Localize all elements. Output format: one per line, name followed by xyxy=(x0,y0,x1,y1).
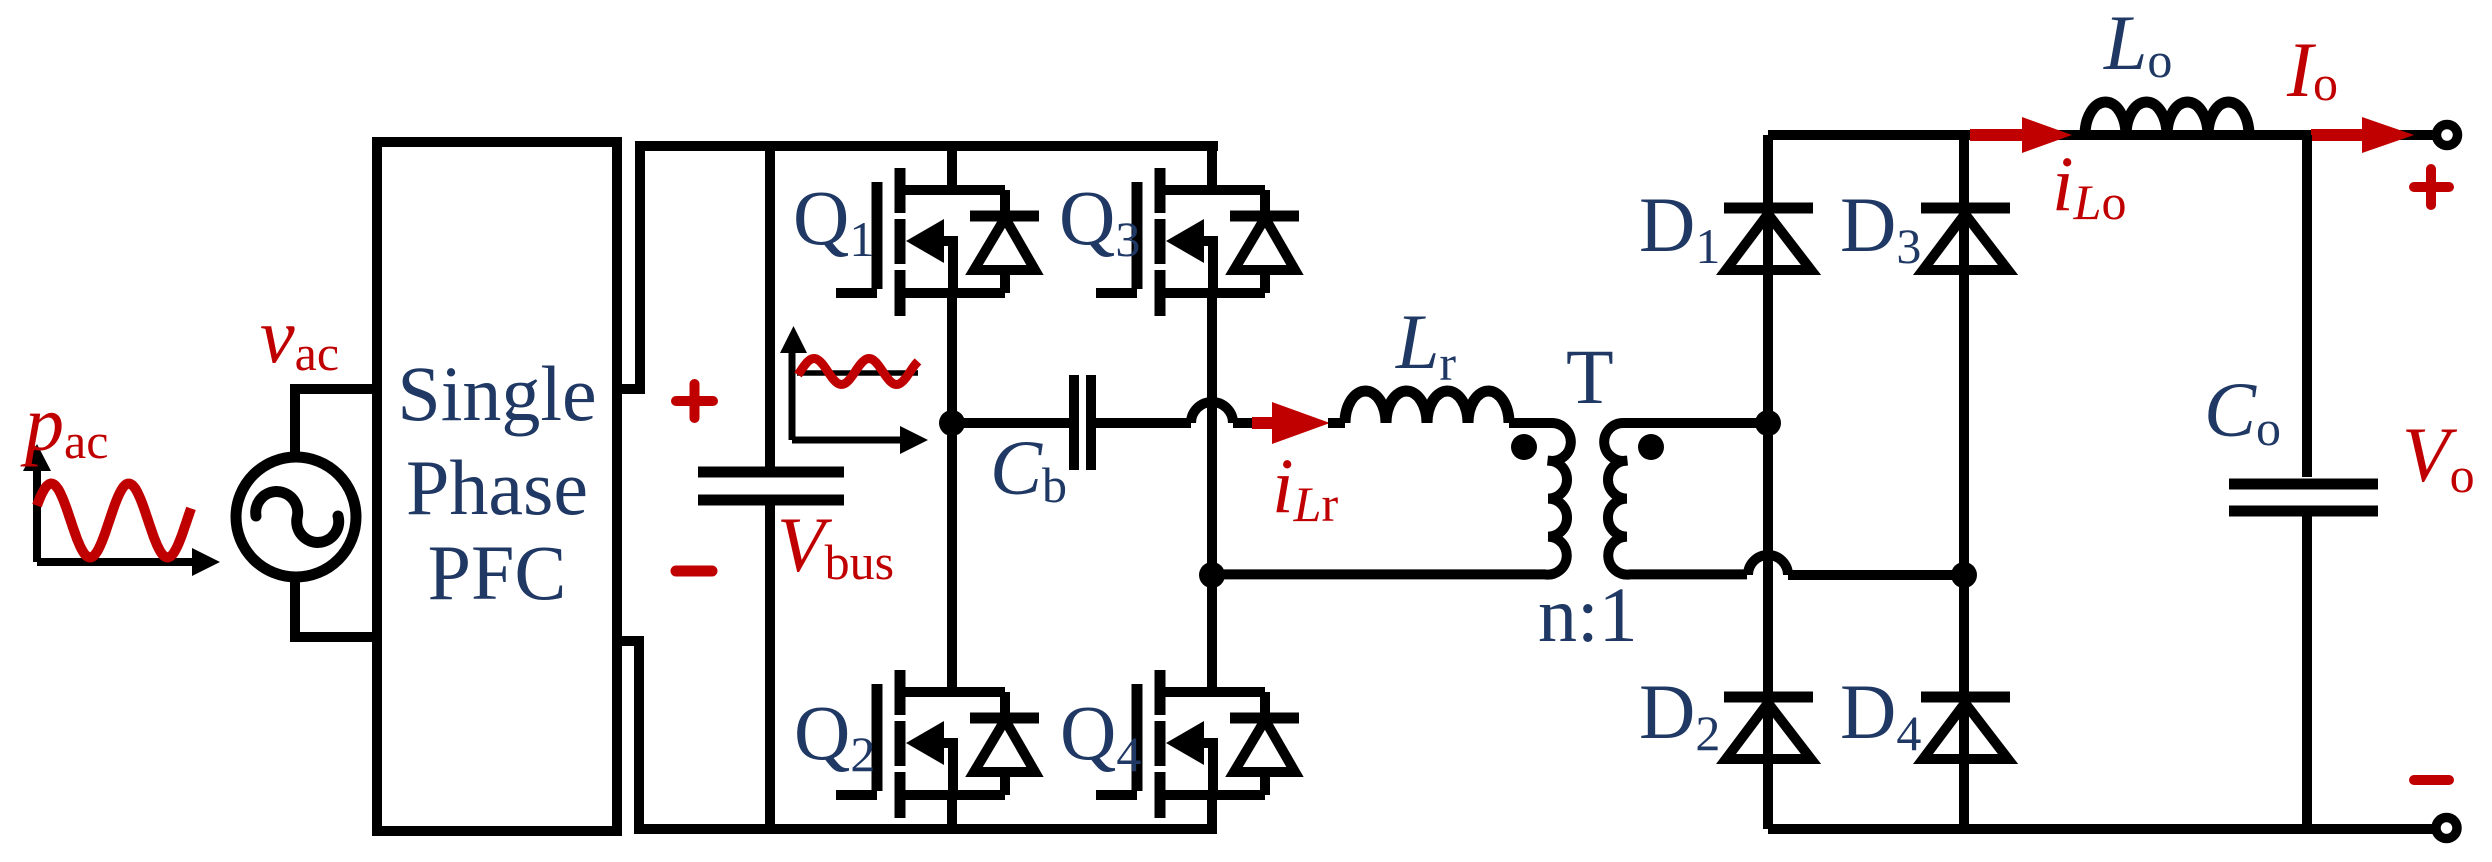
diode D4 xyxy=(1921,697,2010,759)
label + out xyxy=(2414,169,2449,205)
svg-text:n:1: n:1 xyxy=(1538,571,1638,658)
arrow I_o xyxy=(2311,129,2366,141)
p_ac sine curve xyxy=(37,484,191,558)
svg-text:PFC: PFC xyxy=(428,529,567,616)
svg-text:Single: Single xyxy=(397,350,596,437)
wire hop over left rail xyxy=(1748,555,1964,575)
inductor Lr xyxy=(1345,391,1509,423)
svg-text:Phase: Phase xyxy=(406,444,588,531)
V_bus ripple sine xyxy=(798,359,918,385)
capacitor Cb xyxy=(1074,375,1091,470)
transistor Q4 xyxy=(1096,423,1299,834)
wire hop over right leg xyxy=(1191,402,1233,423)
wire arrow to Lr xyxy=(1328,418,1345,428)
PFC block xyxy=(377,142,617,831)
wire Cb to hop xyxy=(1096,418,1191,428)
wire node A to Cb xyxy=(952,418,1069,428)
diode D3 xyxy=(1921,208,2010,270)
transistor Q3 xyxy=(1096,141,1299,423)
diode D2 xyxy=(1724,697,1813,759)
capacitor Co xyxy=(2302,135,2312,477)
transformer T secondary winding xyxy=(1604,423,1763,575)
arrow i_Lr xyxy=(1252,417,1276,429)
node B dot xyxy=(1199,562,1225,588)
wire ac bottom xyxy=(295,577,377,637)
terminal + circle xyxy=(2437,125,2458,146)
arrow i_Lo xyxy=(1970,129,2026,141)
wire bridge bottom rail xyxy=(1768,824,2434,834)
primary dot xyxy=(1511,434,1537,460)
node A dot xyxy=(939,410,965,436)
svg-text:T: T xyxy=(1566,333,1614,420)
V_bus waveform axes xyxy=(792,347,903,440)
transistor Q1 xyxy=(836,141,1039,423)
wire bridge left rail xyxy=(1763,135,1773,829)
inductor Lo xyxy=(2085,102,2249,135)
wire bridge top rail xyxy=(1768,130,2434,140)
terminal - circle xyxy=(2436,818,2457,839)
label - bus xyxy=(676,566,712,577)
diode D1 xyxy=(1724,208,1813,270)
transistor Q2 xyxy=(836,423,1039,834)
node secondary bottom dot xyxy=(1951,562,1977,588)
wire pfc out bottom xyxy=(617,641,1216,829)
wire pfc out top xyxy=(617,146,1218,389)
capacitor Vbus xyxy=(765,146,775,467)
node secondary top dot xyxy=(1755,410,1781,436)
ac source v_ac xyxy=(236,457,356,577)
wire bridge right rail xyxy=(1959,135,1969,829)
p_ac waveform axes xyxy=(37,458,196,562)
wire ac top xyxy=(295,389,377,457)
label - out xyxy=(2414,775,2449,785)
label + bus xyxy=(676,384,713,418)
secondary dot xyxy=(1638,434,1664,460)
transformer T primary winding xyxy=(1212,423,1571,575)
wire Lr to transformer xyxy=(1509,418,1534,428)
